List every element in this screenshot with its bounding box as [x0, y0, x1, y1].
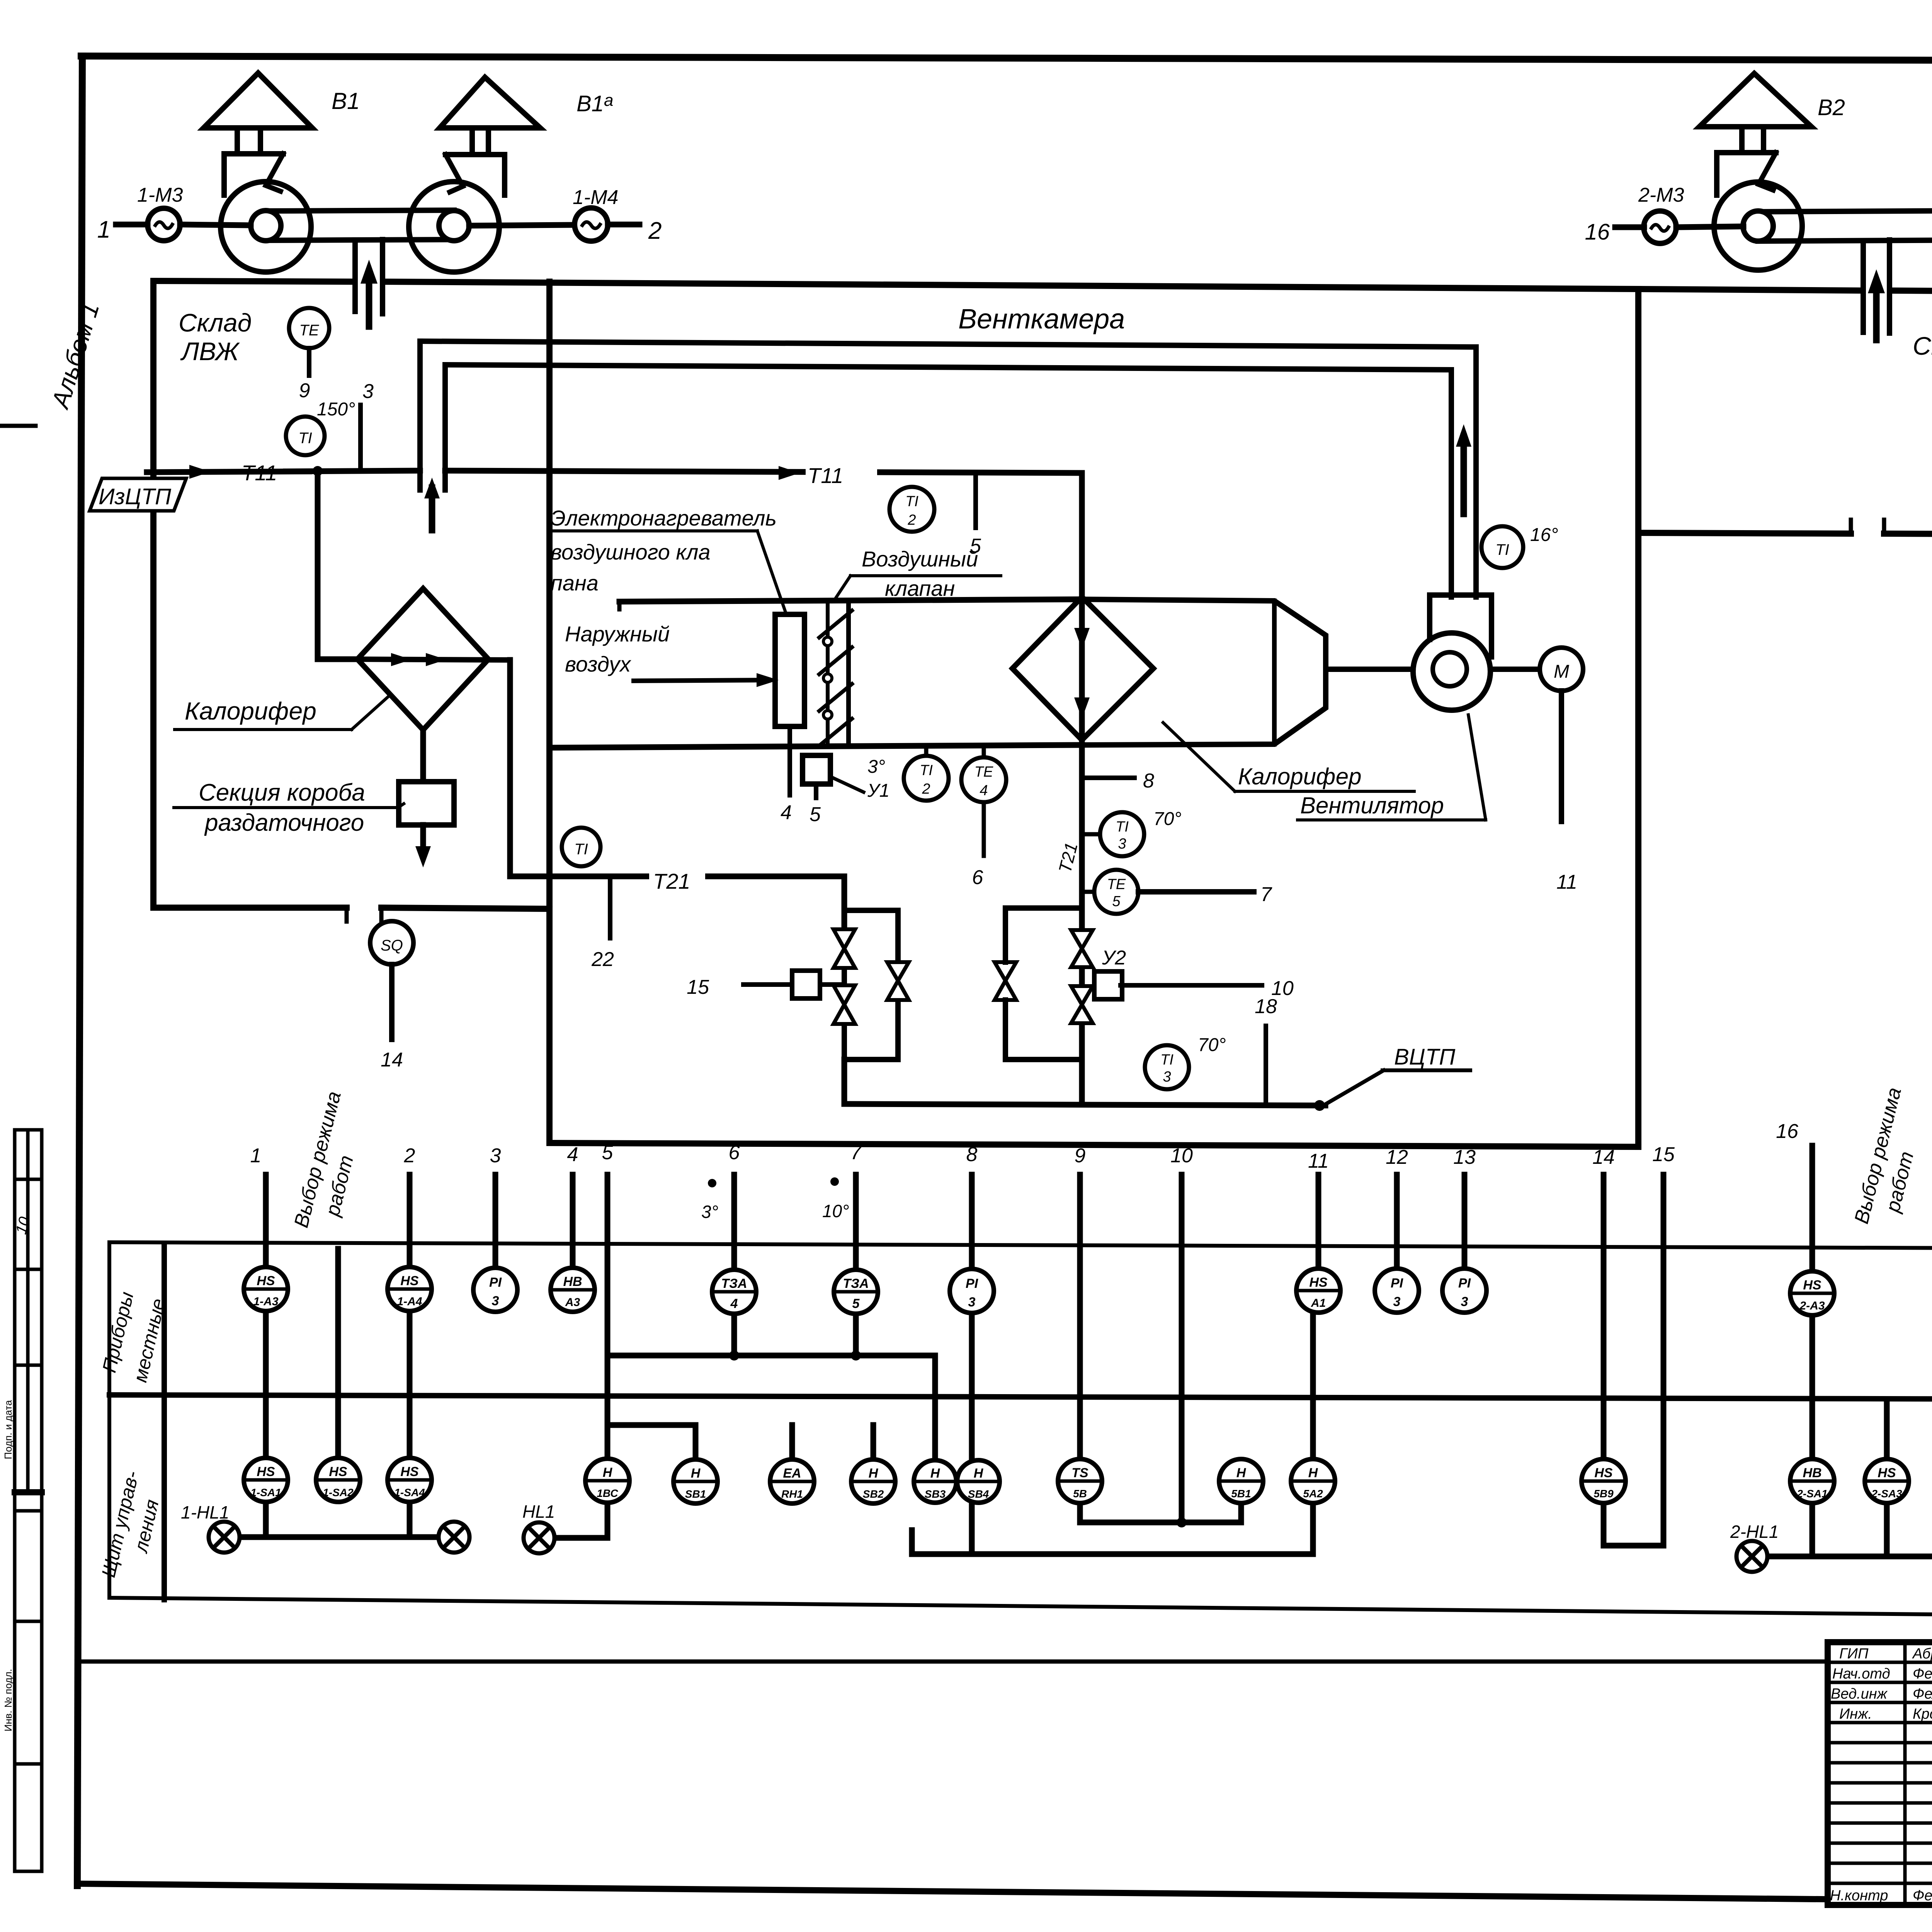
- svg-text:В2: В2: [1818, 95, 1845, 120]
- svg-text:РI: РI: [966, 1276, 979, 1291]
- svg-text:воздушного кла: воздушного кла: [551, 540, 711, 564]
- svg-text:2-НL1: 2-НL1: [1730, 1522, 1779, 1542]
- svg-text:НS: НS: [1878, 1466, 1896, 1480]
- svg-text:5: 5: [852, 1296, 860, 1311]
- svg-text:2-SА3: 2-SА3: [1871, 1488, 1902, 1500]
- svg-text:5В1: 5В1: [1231, 1488, 1251, 1500]
- svg-text:9: 9: [299, 379, 310, 402]
- svg-text:4: 4: [730, 1296, 738, 1311]
- svg-text:Калорифер: Калорифер: [1238, 764, 1362, 789]
- svg-text:ТЕ: ТЕ: [1107, 876, 1126, 893]
- svg-text:150°: 150°: [317, 399, 355, 420]
- svg-text:10: 10: [1170, 1145, 1193, 1167]
- svg-text:воздух: воздух: [565, 652, 631, 676]
- svg-text:2: 2: [907, 512, 916, 528]
- svg-text:1-SА2: 1-SА2: [323, 1486, 354, 1498]
- svg-text:2: 2: [404, 1145, 415, 1167]
- svg-text:У2: У2: [1102, 947, 1126, 969]
- svg-text:70°: 70°: [1198, 1035, 1226, 1055]
- svg-text:Н: Н: [691, 1466, 701, 1481]
- svg-text:3: 3: [1393, 1294, 1401, 1309]
- svg-text:15: 15: [1652, 1143, 1675, 1166]
- svg-text:Нач.отд: Нач.отд: [1832, 1666, 1890, 1682]
- svg-text:15: 15: [687, 976, 709, 998]
- svg-text:ТI: ТI: [920, 762, 933, 779]
- svg-text:Н: Н: [1308, 1466, 1318, 1480]
- svg-text:Н: Н: [603, 1465, 613, 1480]
- svg-text:клапан: клапан: [885, 576, 955, 600]
- svg-text:1-SА1: 1-SА1: [250, 1486, 281, 1498]
- svg-text:Т21: Т21: [653, 869, 690, 893]
- svg-text:ТI: ТI: [1116, 819, 1129, 835]
- svg-text:Н.контр: Н.контр: [1830, 1888, 1888, 1904]
- svg-text:3: 3: [490, 1145, 501, 1167]
- svg-text:6: 6: [972, 866, 983, 889]
- svg-text:Н: Н: [930, 1466, 940, 1481]
- svg-text:RН1: RН1: [781, 1488, 803, 1500]
- svg-text:Н: Н: [974, 1466, 984, 1481]
- svg-text:НS: НS: [257, 1274, 275, 1288]
- svg-text:Наружный: Наружный: [565, 622, 670, 646]
- svg-text:Воздушный: Воздушный: [862, 547, 978, 571]
- svg-text:3: 3: [1163, 1069, 1171, 1085]
- svg-text:Инв. № подл.: Инв. № подл.: [2, 1669, 14, 1731]
- svg-text:3: 3: [1461, 1294, 1468, 1309]
- svg-text:ТI: ТI: [298, 430, 312, 447]
- svg-text:ТI: ТI: [905, 493, 918, 510]
- svg-text:9: 9: [1075, 1145, 1086, 1167]
- svg-text:Фейгин: Фейгин: [1913, 1666, 1932, 1682]
- svg-text:3°: 3°: [701, 1202, 718, 1222]
- svg-text:Секция короба: Секция короба: [199, 779, 365, 806]
- svg-text:3: 3: [968, 1295, 976, 1310]
- svg-text:18: 18: [1255, 995, 1277, 1018]
- svg-text:НS: НS: [1309, 1275, 1328, 1290]
- svg-text:Т11: Т11: [808, 463, 843, 488]
- svg-text:Фейгин: Фейгин: [1913, 1888, 1932, 1904]
- svg-text:Вед.инж: Вед.инж: [1831, 1686, 1888, 1702]
- svg-text:2-М3: 2-М3: [1638, 184, 1684, 206]
- svg-text:1-М3: 1-М3: [137, 184, 183, 206]
- svg-text:ИзЦТП: ИзЦТП: [99, 484, 172, 509]
- svg-text:ТI: ТI: [1495, 541, 1509, 558]
- svg-text:ЕА: ЕА: [783, 1466, 801, 1481]
- svg-text:Электронагреватель: Электронагреватель: [551, 506, 777, 530]
- svg-text:8: 8: [966, 1143, 978, 1166]
- svg-text:Н: Н: [869, 1466, 879, 1481]
- svg-text:5В: 5В: [1073, 1488, 1087, 1500]
- svg-text:ТЗА: ТЗА: [721, 1276, 747, 1291]
- svg-text:А1: А1: [1311, 1297, 1326, 1310]
- svg-text:Калорифер: Калорифер: [185, 697, 316, 725]
- svg-text:1-НL1: 1-НL1: [181, 1502, 229, 1522]
- svg-text:2-А3: 2-А3: [1799, 1299, 1825, 1312]
- svg-text:16: 16: [1585, 219, 1610, 245]
- svg-text:ТI: ТI: [1160, 1052, 1173, 1068]
- svg-text:3: 3: [1118, 836, 1126, 852]
- svg-text:НS: НS: [1803, 1278, 1821, 1293]
- svg-text:3: 3: [362, 380, 374, 403]
- svg-text:3: 3: [492, 1294, 499, 1308]
- svg-text:2-SА1: 2-SА1: [1796, 1488, 1827, 1500]
- svg-text:В1: В1: [332, 88, 360, 114]
- svg-text:РI: РI: [489, 1275, 502, 1290]
- svg-text:1-SА4: 1-SА4: [394, 1486, 425, 1498]
- svg-text:НL1: НL1: [522, 1502, 555, 1522]
- svg-text:6: 6: [729, 1141, 740, 1164]
- svg-text:4: 4: [781, 801, 792, 824]
- svg-text:1ВС: 1ВС: [597, 1487, 618, 1499]
- svg-text:1-А4: 1-А4: [397, 1295, 422, 1308]
- svg-text:2: 2: [648, 218, 662, 244]
- svg-text:3°: 3°: [867, 757, 885, 777]
- svg-text:А3: А3: [565, 1296, 580, 1309]
- svg-text:Кронцвет: Кронцвет: [1913, 1706, 1932, 1722]
- svg-text:Склад гж: Склад гж: [1913, 332, 1932, 360]
- svg-text:5В9: 5В9: [1594, 1488, 1614, 1500]
- svg-text:SВ3: SВ3: [925, 1488, 946, 1500]
- svg-text:5: 5: [602, 1141, 614, 1164]
- svg-text:SВ4: SВ4: [968, 1488, 989, 1500]
- svg-text:SВ1: SВ1: [685, 1488, 706, 1500]
- svg-text:ТS: ТS: [1071, 1466, 1088, 1480]
- svg-text:НВ: НВ: [1803, 1466, 1821, 1480]
- svg-text:5: 5: [810, 803, 821, 826]
- svg-text:4: 4: [567, 1143, 578, 1166]
- svg-text:5: 5: [1112, 893, 1121, 910]
- svg-text:Абрамова: Абрамова: [1912, 1646, 1932, 1662]
- svg-text:1-А3: 1-А3: [253, 1295, 278, 1308]
- svg-text:ТЗА: ТЗА: [843, 1276, 869, 1291]
- svg-text:Фельдман: Фельдман: [1913, 1686, 1932, 1702]
- svg-text:14: 14: [381, 1049, 403, 1071]
- svg-text:70°: 70°: [1153, 809, 1182, 829]
- svg-text:М: М: [1554, 662, 1569, 682]
- svg-text:ВЦТП: ВЦТП: [1394, 1044, 1456, 1070]
- svg-text:8: 8: [1143, 770, 1154, 792]
- svg-text:НS: НS: [400, 1464, 419, 1479]
- svg-text:4: 4: [980, 782, 988, 799]
- svg-text:НS: НS: [400, 1274, 419, 1288]
- svg-text:1: 1: [97, 216, 111, 243]
- svg-text:пана: пана: [551, 571, 599, 595]
- svg-text:РI: РI: [1391, 1276, 1404, 1291]
- svg-text:11: 11: [1308, 1150, 1329, 1172]
- svg-text:У1: У1: [867, 781, 889, 801]
- svg-text:22: 22: [591, 948, 614, 971]
- svg-text:10°: 10°: [822, 1201, 849, 1221]
- svg-text:13: 13: [1453, 1146, 1476, 1168]
- svg-text:Венткамера: Венткамера: [958, 304, 1125, 335]
- svg-text:Вентилятор: Вентилятор: [1300, 793, 1444, 818]
- svg-text:16: 16: [1776, 1120, 1798, 1143]
- svg-text:НS: НS: [257, 1464, 275, 1479]
- svg-text:7: 7: [850, 1141, 862, 1164]
- svg-text:ЛВЖ: ЛВЖ: [180, 337, 240, 366]
- svg-text:SВ2: SВ2: [863, 1488, 884, 1500]
- svg-text:ГИП: ГИП: [1839, 1646, 1869, 1662]
- svg-text:РI: РI: [1458, 1276, 1471, 1291]
- svg-text:2: 2: [922, 781, 930, 797]
- svg-text:НВ: НВ: [563, 1274, 582, 1289]
- svg-text:7: 7: [1260, 883, 1272, 906]
- svg-text:ТЕ: ТЕ: [299, 322, 319, 339]
- svg-text:Склад: Склад: [179, 308, 252, 337]
- svg-text:Инж.: Инж.: [1839, 1706, 1872, 1722]
- svg-text:Н: Н: [1236, 1466, 1247, 1480]
- svg-text:16°: 16°: [1530, 525, 1558, 545]
- svg-text:Т11: Т11: [241, 461, 277, 485]
- svg-text:раздаточного: раздаточного: [204, 810, 364, 836]
- svg-text:Подп. и дата: Подп. и дата: [2, 1400, 14, 1459]
- svg-text:14: 14: [1592, 1146, 1615, 1168]
- svg-text:НS: НS: [329, 1464, 347, 1479]
- svg-text:НS: НS: [1594, 1466, 1613, 1480]
- svg-text:1-М4: 1-М4: [573, 186, 618, 209]
- svg-text:SQ: SQ: [381, 937, 403, 954]
- svg-text:5А2: 5А2: [1303, 1488, 1323, 1500]
- svg-text:11: 11: [1556, 871, 1577, 893]
- svg-text:ТI: ТI: [574, 841, 588, 858]
- svg-text:ТЕ: ТЕ: [975, 764, 993, 780]
- svg-text:1: 1: [250, 1145, 262, 1167]
- svg-text:12: 12: [1386, 1146, 1408, 1168]
